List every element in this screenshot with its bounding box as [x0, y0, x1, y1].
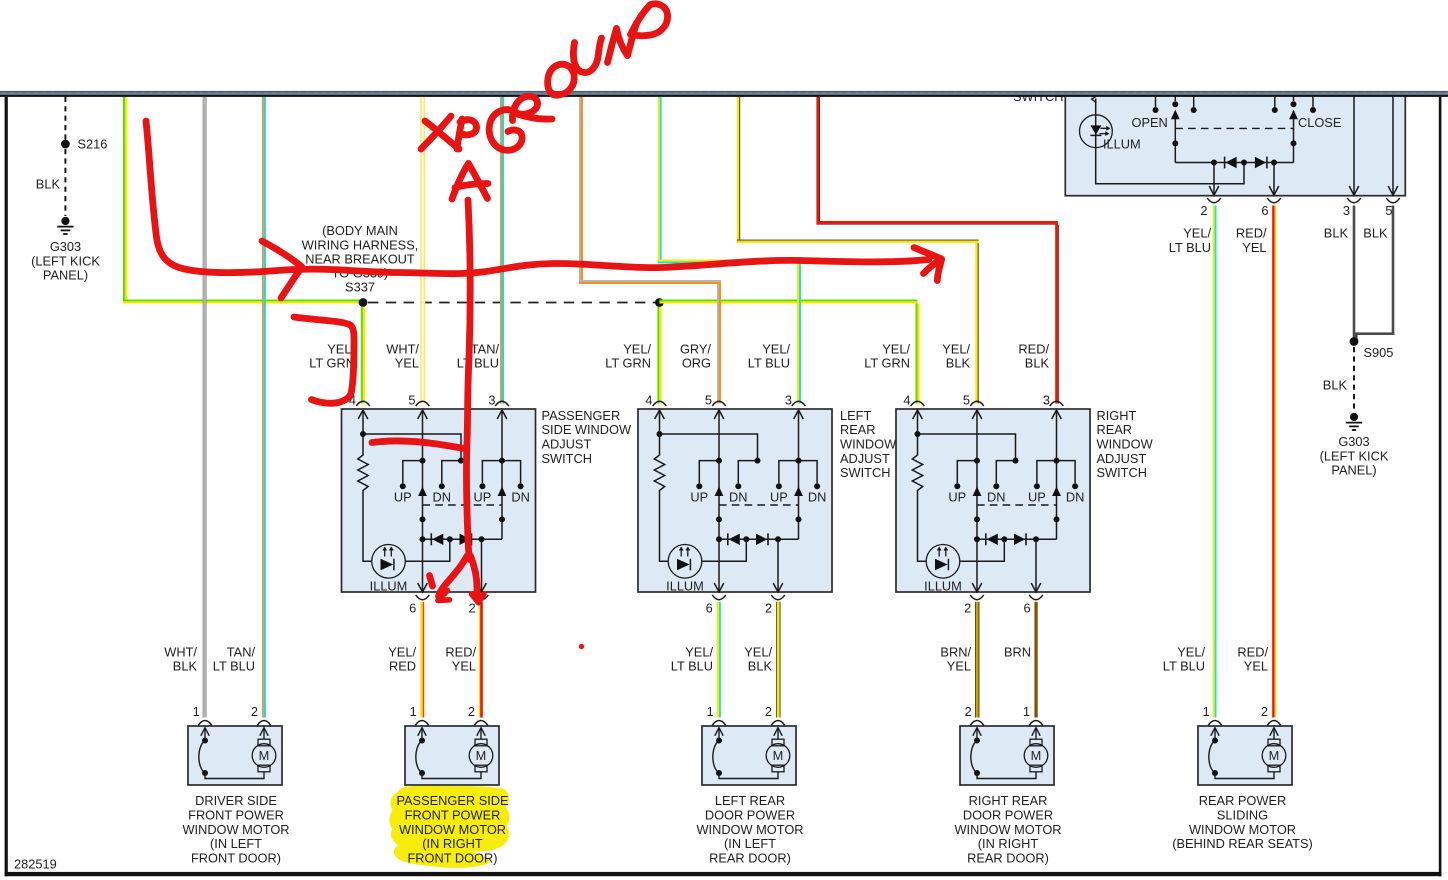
svg-text:(IN LEFT: (IN LEFT [724, 836, 776, 851]
svg-text:2: 2 [965, 704, 972, 719]
wire labels above left rear switch [605, 341, 790, 370]
wire YEL/LT GRN junction B to left rear switch pin 4 [657, 307, 661, 404]
svg-text:BLK: BLK [1324, 226, 1349, 241]
svg-text:3: 3 [785, 392, 792, 407]
wire labels above right rear switch [864, 341, 1049, 370]
bottom wire labels left rear motor [671, 644, 773, 673]
svg-text:1: 1 [410, 704, 417, 719]
rear switch wire labels [1169, 226, 1388, 255]
svg-text:FRONT POWER: FRONT POWER [405, 807, 501, 822]
svg-text:BLK: BLK [946, 356, 971, 371]
right rear door power window motor M4 [960, 726, 1054, 785]
svg-text:SWITCH: SWITCH [542, 451, 592, 466]
svg-text:2: 2 [468, 601, 475, 616]
wire labels above passenger switch [309, 341, 499, 370]
svg-text:DOOR POWER: DOOR POWER [705, 807, 795, 822]
svg-text:RIGHT REAR: RIGHT REAR [969, 793, 1048, 808]
bottom wire labels right rear motor [940, 644, 1031, 673]
svg-text:FRONT DOOR): FRONT DOOR) [407, 851, 497, 866]
svg-text:BLK: BLK [173, 659, 198, 674]
red arrowhead mid (at S337 note) [262, 241, 302, 267]
svg-text:BLK: BLK [1363, 226, 1388, 241]
svg-text:PANEL): PANEL) [1331, 463, 1376, 478]
svg-text:LEFT: LEFT [840, 408, 871, 423]
open switch arm [1174, 97, 1176, 102]
left rear motor caption [696, 793, 803, 866]
passenger side window adjust switch U1 [342, 409, 536, 592]
svg-text:6: 6 [1023, 601, 1030, 616]
node S337 junction B [655, 298, 664, 307]
svg-text:SWITCH: SWITCH [840, 465, 890, 480]
wire WHT/YEL header to passenger switch pin 5 [420, 97, 425, 404]
svg-text:BLK: BLK [1323, 378, 1348, 393]
svg-text:PASSENGER: PASSENGER [542, 408, 621, 423]
wire BLK to S216 (dashed) [64, 97, 66, 140]
svg-text:WHT/: WHT/ [164, 644, 197, 659]
wire YEL/LT GRN junction B to right rear switch pin 4 [659, 300, 919, 404]
right page border [1439, 97, 1442, 877]
top header bar [0, 91, 1448, 97]
svg-text:SLIDING: SLIDING [1217, 807, 1268, 822]
svg-text:YEL: YEL [947, 659, 971, 674]
svg-text:2: 2 [765, 601, 772, 616]
svg-text:ADJUST: ADJUST [542, 437, 592, 452]
rear sliding window switch U4 (top right, cut by header) [1065, 93, 1405, 196]
passenger switch label [542, 408, 632, 466]
right rear switch label [1097, 408, 1154, 480]
wire YEL/BLK header to right rear switch pin 5 [737, 97, 979, 404]
svg-text:ORG: ORG [682, 356, 711, 371]
svg-text:YEL/: YEL/ [1177, 644, 1205, 659]
passenger side front power window motor M2 [405, 726, 499, 785]
svg-text:M: M [773, 748, 784, 763]
red arrow shaft down through passenger switch [467, 200, 471, 560]
handwritten arrowhead A [452, 164, 469, 200]
wire BLK rear switch pin 5 to S905 [1355, 206, 1394, 341]
svg-text:LT BLU: LT BLU [457, 356, 499, 371]
svg-text:LT GRN: LT GRN [309, 356, 355, 371]
wire TAN/LT BLU header to passenger switch pin 3 [500, 97, 504, 404]
svg-text:(LEFT KICK: (LEFT KICK [31, 253, 100, 268]
svg-text:UP: UP [770, 489, 788, 504]
pin 5 line through box [1392, 97, 1394, 196]
svg-text:ADJUST: ADJUST [840, 451, 890, 466]
svg-text:REAR: REAR [1097, 422, 1133, 437]
illum feed line with arrow [1096, 99, 1244, 184]
svg-text:1: 1 [707, 704, 714, 719]
svg-text:RED/: RED/ [1018, 341, 1049, 356]
svg-text:RED: RED [389, 659, 416, 674]
svg-text:S216: S216 [78, 137, 108, 152]
driver motor caption [182, 793, 289, 866]
close contact stubs [1274, 97, 1276, 108]
handwritten N [608, 29, 617, 63]
svg-text:S905: S905 [1364, 345, 1394, 360]
contact dots rear switch [1153, 107, 1159, 113]
svg-text:DN: DN [511, 489, 529, 504]
handwritten G [489, 110, 522, 151]
svg-text:ADJUST: ADJUST [1097, 451, 1147, 466]
svg-text:282519: 282519 [14, 857, 57, 872]
svg-text:TAN/: TAN/ [227, 644, 256, 659]
svg-text:FRONT DOOR): FRONT DOOR) [191, 851, 281, 866]
LED symbol in rear switch illum [1090, 125, 1109, 135]
svg-text:UP: UP [394, 489, 412, 504]
rear power sliding window motor M5 [1198, 726, 1292, 785]
wire YEL/LT GRN junction A to passenger switch pin 4 [361, 307, 365, 404]
svg-text:(IN RIGHT: (IN RIGHT [422, 836, 483, 851]
wire BLK S905 to G303 (dashed) [1353, 347, 1355, 412]
bottom wire labels passenger motor [388, 644, 476, 673]
svg-text:LT BLU: LT BLU [1163, 659, 1205, 674]
red fork left with arrowhead [439, 556, 468, 597]
diode row [1175, 162, 1293, 164]
svg-text:PASSENGER SIDE: PASSENGER SIDE [396, 793, 508, 808]
wire BLK rear switch pin 3 to S905 [1353, 206, 1356, 339]
svg-text:WINDOW MOTOR: WINDOW MOTOR [1189, 822, 1296, 837]
wire YEL/LT BLU rear switch pin 2 to sliding motor [1213, 206, 1217, 718]
svg-text:WINDOW MOTOR: WINDOW MOTOR [182, 822, 289, 837]
wire YEL/LT BLU header to left rear switch pin 3 [658, 97, 801, 404]
svg-text:PANEL): PANEL) [43, 268, 88, 283]
svg-text:YEL: YEL [452, 659, 476, 674]
svg-text:RED/: RED/ [445, 644, 476, 659]
svg-text:3: 3 [488, 392, 495, 407]
svg-text:M: M [1269, 748, 1280, 763]
svg-text:UP: UP [948, 489, 966, 504]
red marker annotations [146, 4, 942, 603]
red long line from top left to right arrow [146, 121, 929, 274]
svg-text:REAR DOOR): REAR DOOR) [709, 851, 791, 866]
svg-text:LEFT REAR: LEFT REAR [715, 793, 785, 808]
wire BRN right rear switch pin 6 to motor [1034, 602, 1037, 718]
svg-text:UP: UP [474, 489, 492, 504]
red hook stroke to pin 4 area [294, 317, 354, 403]
wire S337 dashed link [368, 302, 655, 304]
svg-text:2: 2 [251, 704, 258, 719]
svg-text:2: 2 [765, 704, 772, 719]
svg-text:YEL/: YEL/ [685, 644, 713, 659]
left rear window adjust switch U2 [638, 409, 832, 592]
svg-text:DN: DN [729, 489, 747, 504]
svg-text:2: 2 [964, 601, 971, 616]
svg-text:M: M [476, 748, 487, 763]
node S905 [1350, 337, 1359, 346]
svg-text:TAN/: TAN/ [471, 341, 500, 356]
svg-text:YEL: YEL [1244, 659, 1268, 674]
ground G303 right [1346, 413, 1362, 430]
svg-text:5: 5 [705, 392, 712, 407]
svg-text:4: 4 [903, 392, 910, 407]
svg-text:SWITCH: SWITCH [1097, 465, 1147, 480]
wire RED/YEL passenger switch pin 2 to motor [479, 602, 483, 718]
svg-text:WINDOW MOTOR: WINDOW MOTOR [696, 822, 803, 837]
svg-text:REAR POWER: REAR POWER [1199, 793, 1286, 808]
svg-text:YEL/: YEL/ [942, 341, 970, 356]
red dot mark [579, 644, 584, 649]
right rear window adjust switch U3 [896, 409, 1090, 592]
svg-text:G303: G303 [50, 239, 81, 254]
svg-text:YEL: YEL [1242, 240, 1266, 255]
svg-text:1: 1 [193, 704, 200, 719]
svg-text:YEL/: YEL/ [882, 341, 910, 356]
passenger switch pin numbers and connectors [349, 392, 496, 615]
bottom wire labels driver motor [164, 644, 255, 673]
svg-text:M: M [259, 748, 270, 763]
svg-text:2: 2 [468, 704, 475, 719]
wire BLK S216 to G303 (dashed) [64, 149, 66, 216]
wire RED/YEL rear switch pin 6 to sliding motor [1272, 206, 1276, 718]
svg-text:M: M [1031, 748, 1042, 763]
svg-text:(BODY MAIN: (BODY MAIN [322, 223, 398, 238]
svg-text:ILLUM: ILLUM [370, 578, 408, 593]
svg-text:REAR: REAR [840, 422, 876, 437]
right rear switch pin numbers and connectors [903, 392, 1050, 615]
close switch arm [1293, 97, 1295, 102]
pin 3 line through box [1353, 97, 1355, 196]
wire TAN/LT BLU header to driver motor pin 2 [262, 97, 266, 718]
svg-text:YEL/: YEL/ [623, 341, 651, 356]
svg-text:LT BLU: LT BLU [671, 659, 713, 674]
svg-text:LT BLU: LT BLU [213, 659, 255, 674]
pin 6 drop [1273, 163, 1275, 196]
wire BRN/YEL right rear switch pin 2 to motor [975, 602, 980, 718]
svg-text:3: 3 [1343, 203, 1350, 218]
ground G303 left [57, 217, 73, 234]
svg-text:DOOR POWER: DOOR POWER [963, 807, 1053, 822]
left rear door power window motor M3 [702, 726, 796, 785]
svg-text:3: 3 [1043, 392, 1050, 407]
svg-text:YEL/: YEL/ [762, 341, 790, 356]
svg-text:ILLUM: ILLUM [666, 578, 704, 593]
svg-text:REAR DOOR): REAR DOOR) [967, 851, 1049, 866]
svg-text:DN: DN [808, 489, 826, 504]
svg-text:YEL/: YEL/ [388, 644, 416, 659]
wire GRY/ORG header to left rear switch pin 5 [579, 97, 721, 404]
svg-text:BRN: BRN [1004, 644, 1031, 659]
svg-text:ILLUM: ILLUM [1103, 137, 1141, 152]
handwritten R [512, 96, 537, 120]
left rear switch label [840, 408, 897, 480]
svg-text:RIGHT: RIGHT [1097, 408, 1137, 423]
svg-text:G303: G303 [1338, 434, 1369, 449]
wire YEL/BLK left rear switch pin 2 to motor [776, 602, 780, 718]
svg-text:5: 5 [1385, 203, 1392, 218]
svg-text:WINDOW MOTOR: WINDOW MOTOR [399, 822, 506, 837]
red arrowhead right end [914, 248, 942, 260]
svg-text:WINDOW: WINDOW [840, 437, 897, 452]
svg-text:BLK: BLK [36, 177, 61, 192]
svg-text:FRONT POWER: FRONT POWER [188, 807, 284, 822]
open contact stubs [1155, 97, 1157, 108]
svg-text:SIDE WINDOW: SIDE WINDOW [542, 422, 632, 437]
svg-text:5: 5 [963, 392, 970, 407]
diode pair rear switch [1224, 157, 1226, 169]
svg-text:LT GRN: LT GRN [864, 356, 910, 371]
svg-text:1: 1 [1023, 704, 1030, 719]
handwritten P [457, 119, 462, 149]
node S337 junction A [359, 298, 368, 307]
yellow highlighter blob over passenger motor label [389, 786, 509, 868]
svg-text:6: 6 [706, 601, 713, 616]
handwritten D [631, 5, 651, 35]
left rear switch pin numbers and connectors [645, 392, 792, 615]
svg-text:DRIVER SIDE: DRIVER SIDE [195, 793, 277, 808]
svg-text:BLK: BLK [1025, 356, 1050, 371]
svg-text:WINDOW: WINDOW [1097, 437, 1154, 452]
svg-text:DN: DN [987, 489, 1005, 504]
mechanical link dashed [1175, 127, 1293, 129]
svg-text:CLOSE: CLOSE [1298, 115, 1341, 130]
svg-text:RED/: RED/ [1237, 644, 1268, 659]
svg-text:(IN RIGHT: (IN RIGHT [978, 836, 1039, 851]
handwritten O [548, 64, 575, 95]
rear switch pin numbers and connectors [1200, 203, 1392, 218]
svg-text:LT GRN: LT GRN [605, 356, 651, 371]
wire YEL/RED passenger switch pin 6 to motor [420, 602, 424, 718]
svg-text:UP: UP [1028, 489, 1046, 504]
svg-text:LT BLU: LT BLU [748, 356, 790, 371]
handwritten T (X shape) [425, 121, 459, 149]
svg-text:BRN/: BRN/ [940, 644, 971, 659]
illum lamp circle [1080, 115, 1113, 148]
wire WHT/BLK header to driver motor pin 1 [203, 97, 207, 718]
right rear motor caption [954, 793, 1061, 866]
wire YEL/LT GRN from header to S337 junction [123, 97, 364, 304]
svg-text:(BEHIND REAR SEATS): (BEHIND REAR SEATS) [1172, 836, 1313, 851]
svg-text:UP: UP [690, 489, 708, 504]
svg-text:(LEFT KICK: (LEFT KICK [1320, 448, 1389, 463]
left page border [5, 97, 8, 877]
svg-text:WIRING HARNESS,: WIRING HARNESS, [302, 237, 419, 252]
red wavy branch into shaft [372, 441, 466, 449]
svg-text:BLK: BLK [748, 659, 773, 674]
svg-text:YEL/: YEL/ [744, 644, 772, 659]
svg-text:NEAR BREAKOUT: NEAR BREAKOUT [305, 251, 415, 266]
driver side front power window motor M1 [188, 726, 282, 785]
svg-text:LT BLU: LT BLU [1169, 240, 1211, 255]
svg-text:6: 6 [1261, 203, 1268, 218]
svg-text:ILLUM: ILLUM [924, 578, 962, 593]
svg-text:1: 1 [1203, 704, 1210, 719]
bottom wire labels rear sliding motor [1163, 644, 1269, 673]
svg-text:DN: DN [433, 489, 451, 504]
svg-text:WHT/: WHT/ [386, 341, 419, 356]
svg-text:RED/: RED/ [1236, 226, 1267, 241]
rear sliding motor caption [1172, 793, 1313, 851]
node S216 [61, 140, 70, 149]
svg-text:4: 4 [645, 392, 652, 407]
wire YEL/LT BLU left rear switch pin 6 to motor [717, 602, 721, 718]
svg-text:WINDOW MOTOR: WINDOW MOTOR [954, 822, 1061, 837]
handwritten U [573, 38, 601, 73]
svg-text:DN: DN [1066, 489, 1084, 504]
red fork right with arrowhead [471, 556, 479, 601]
svg-text:(IN LEFT: (IN LEFT [210, 836, 262, 851]
svg-text:GRY/: GRY/ [680, 341, 711, 356]
arm arrowheads [1171, 110, 1180, 120]
note (BODY MAIN WIRING HARNESS, NEAR BREAKOUT TO G339) S337 [302, 223, 419, 294]
svg-text:2: 2 [1200, 203, 1207, 218]
pin 2 drop [1213, 163, 1215, 196]
svg-text:2: 2 [1261, 704, 1268, 719]
svg-text:OPEN: OPEN [1132, 115, 1168, 130]
passenger motor caption [396, 793, 508, 866]
bottom page border [5, 872, 1442, 876]
wire RED/BLK header to right rear switch pin 3 [816, 97, 1058, 404]
svg-text:YEL/: YEL/ [1183, 226, 1211, 241]
svg-text:YEL: YEL [395, 356, 419, 371]
svg-text:S337: S337 [345, 280, 375, 295]
svg-text:5: 5 [408, 392, 415, 407]
svg-text:6: 6 [409, 601, 416, 616]
